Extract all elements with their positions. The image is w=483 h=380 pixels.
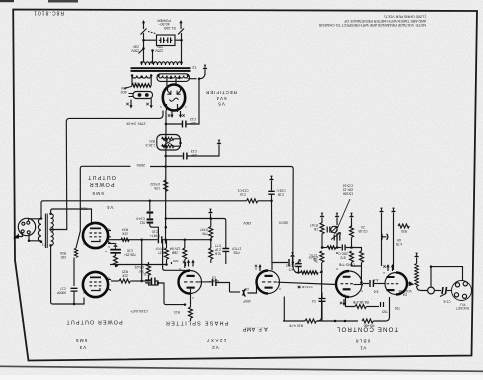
svg-text:R10 4-7K: R10 4-7K	[288, 324, 303, 328]
svg-text:C1a: C1a	[240, 193, 246, 197]
svg-text:6V4: 6V4	[215, 96, 226, 101]
svg-text:O?RO-??B: O?RO-??B	[339, 263, 355, 267]
svg-text:AND ARE TAKEN WITH METER RESIS: AND ARE TAKEN WITH METER RESISTANCE OF	[343, 19, 426, 23]
svg-text:2-2?: 2-2?	[158, 251, 165, 255]
svg-text:C14-0: C14-0	[136, 217, 145, 221]
svg-text:872: 872	[340, 256, 346, 260]
svg-text:40+: 40+	[190, 121, 196, 125]
svg-text:C1B: C1B	[278, 193, 284, 197]
svg-text:A: A	[383, 271, 385, 275]
svg-text:NOTE: VOLTAGE READINGS ARE WIT: NOTE: VOLTAGE READINGS ARE WITH RESPECT …	[318, 23, 426, 27]
svg-text:230-: 230-	[132, 45, 139, 49]
svg-text:40-50~: 40-50~	[158, 22, 169, 26]
svg-text:POWER OUTPUT: POWER OUTPUT	[65, 319, 122, 325]
svg-text:RECTIFIER: RECTIFIER	[205, 90, 236, 95]
svg-text:TONE CONTROL: TONE CONTROL	[336, 326, 398, 333]
svg-text:??B: ??B	[202, 232, 208, 236]
svg-text:22K-15: 22K-15	[343, 188, 354, 192]
svg-text:C8: C8	[245, 287, 249, 291]
svg-text:T2: T2	[192, 65, 196, 69]
svg-text:R24: R24	[122, 228, 128, 232]
svg-text:R30: R30	[133, 82, 139, 86]
svg-text:OUTPUT: OUTPUT	[87, 174, 116, 180]
svg-text:1B: 1B	[314, 227, 318, 231]
svg-text:2BB: 2BB	[172, 251, 178, 255]
svg-text:C13: C13	[191, 149, 197, 153]
svg-text:6M5: 6M5	[75, 338, 88, 343]
svg-text:?2B 25+: ?2B 25+	[124, 252, 136, 256]
svg-text:17?C: 17?C	[309, 253, 317, 257]
svg-text:C15-16: C15-16	[343, 184, 354, 188]
svg-text:U?A?: U?A?	[200, 228, 208, 232]
svg-text:?o?: ?o?	[138, 269, 144, 273]
svg-text:A: A	[255, 267, 257, 271]
svg-text:?22: ?22	[394, 306, 400, 310]
svg-text:225V.: 225V.	[154, 49, 163, 53]
svg-text:(1,000 OHMS PER VOLT): (1,000 OHMS PER VOLT)	[384, 15, 426, 19]
svg-text:250V.: 250V.	[130, 49, 139, 53]
svg-text:POWER: POWER	[89, 181, 115, 187]
svg-text:22K: 22K	[121, 274, 128, 278]
svg-text:R13: R13	[174, 310, 180, 314]
svg-text:12V B4: 12V B4	[170, 247, 181, 251]
svg-text:C18-C: C18-C	[276, 189, 286, 193]
svg-text:C17: C17	[60, 287, 66, 291]
svg-text:R26: R26	[60, 251, 66, 255]
svg-text:R25: R25	[122, 270, 128, 274]
svg-text:R21: R21	[149, 139, 155, 143]
svg-text:912: 912	[139, 221, 145, 225]
svg-text:C19-C1: C19-C1	[237, 189, 248, 193]
svg-text:15/18H: 15/18H	[342, 192, 353, 196]
svg-text:265V.: 265V.	[136, 163, 145, 167]
svg-text:1.2K-5: 1.2K-5	[145, 143, 155, 147]
svg-text:1M: 1M	[402, 293, 407, 297]
svg-text:A.F. AMP: A.F. AMP	[242, 326, 267, 332]
svg-text:3?O?O: 3?O?O	[285, 264, 296, 268]
svg-text:28C-O: 28C-O	[338, 252, 348, 256]
svg-text:R8C-8101: R8C-8101	[33, 10, 64, 16]
svg-text:4.5: 4.5	[289, 267, 294, 271]
svg-text:P.U.: P.U.	[459, 303, 465, 307]
svg-text:R8-1B-4?B: R8-1B-4?B	[353, 300, 369, 304]
svg-text:S1-2A5: S1-2A5	[164, 26, 176, 30]
svg-text:C11/0-047+: C11/0-047+	[130, 309, 148, 313]
svg-text:PHASE SPLITTER: PHASE SPLITTER	[165, 320, 229, 326]
svg-text:V1: V1	[360, 346, 367, 351]
svg-text:6M5: 6M5	[91, 191, 104, 196]
svg-text:12AX7: 12AX7	[206, 338, 227, 343]
svg-text:24+: 24+	[191, 153, 197, 157]
svg-text:OB?O: OB?O	[278, 221, 288, 225]
svg-text:A-6: A-6	[373, 278, 378, 282]
svg-text:POWER: POWER	[157, 19, 171, 23]
svg-text:V3: V3	[79, 345, 86, 350]
svg-text:C2-1B: C2-1B	[358, 229, 367, 233]
svg-text:0-047+: 0-047+	[209, 279, 219, 283]
svg-text:9B: 9B	[313, 257, 317, 261]
svg-text:V5: V5	[217, 101, 225, 106]
svg-text:U?X22: U?X22	[150, 182, 160, 186]
svg-text:C1-8: C1-8	[443, 300, 450, 304]
svg-text:72R: 72R	[172, 259, 178, 263]
svg-text:U5: U5	[397, 238, 401, 242]
svg-text:600: 600	[121, 86, 127, 90]
svg-text:V2: V2	[211, 345, 218, 350]
svg-text:180V.: 180V.	[243, 221, 252, 225]
svg-text:6D2: 6D2	[120, 90, 126, 94]
svg-text:?S5: ?S5	[382, 310, 388, 314]
svg-text:R7A?: R7A?	[310, 223, 318, 227]
svg-text:22K: 22K	[121, 232, 128, 236]
svg-text:200-: 200-	[156, 45, 163, 49]
svg-text:C4: C4	[312, 299, 316, 303]
svg-text:220: 220	[60, 255, 66, 259]
svg-text:51B: 51B	[215, 252, 221, 256]
svg-text:C16: C16	[127, 249, 133, 253]
svg-text:C10: C10	[152, 230, 158, 234]
svg-text:C1P: C1P	[215, 248, 221, 252]
svg-text:400P: 400P	[243, 299, 250, 303]
svg-text:V4: V4	[107, 205, 114, 210]
svg-text:+: +	[105, 249, 107, 253]
svg-text:SOCKET: SOCKET	[456, 306, 469, 310]
svg-text:0-047+: 0-047+	[150, 234, 160, 238]
svg-text:8-6: 8-6	[373, 290, 378, 294]
svg-text:17?O?: 17?O?	[231, 247, 241, 251]
svg-text:5.7?: 5.7?	[215, 244, 221, 248]
svg-text:6BL8: 6BL8	[355, 339, 371, 344]
svg-text:U?o22: U?o22	[134, 265, 144, 269]
svg-text:A: A	[108, 245, 110, 249]
svg-text:23: 23	[361, 225, 365, 229]
svg-text:7200: 7200	[80, 207, 88, 211]
svg-text:P1B: P1B	[233, 251, 239, 255]
svg-text:4-?5: 4-?5	[396, 242, 403, 246]
svg-text:C9: C9	[212, 276, 216, 280]
svg-text:6000P: 6000P	[57, 291, 66, 295]
svg-text:R20: R20	[401, 229, 407, 233]
svg-text:275V. 24+24: 275V. 24+24	[126, 122, 145, 126]
svg-text:VOLUME: VOLUME	[398, 289, 411, 293]
svg-text:T1: T1	[42, 243, 46, 247]
svg-text:17B: 17B	[154, 186, 160, 190]
svg-text:C12: C12	[190, 117, 196, 121]
